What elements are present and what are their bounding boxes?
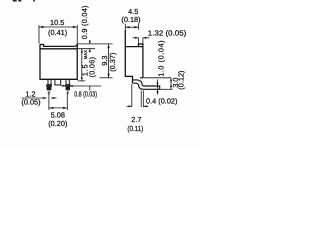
svg-text:(0.18): (0.18)	[121, 15, 140, 24]
dimension 5.08 (0.20) lead pitch	[49, 92, 67, 110]
dimension 3.0 (0.12)	[160, 78, 173, 90]
dimension 1.5 MAX (0.06)	[77, 49, 85, 81]
svg-text:2.7: 2.7	[131, 115, 141, 124]
lead 3 (right)	[66, 79, 70, 86]
dimension 4.5 (0.18) body depth	[125, 24, 138, 30]
wire top cut-off text remnants	[13, 0, 35, 2]
svg-text:(0.06): (0.06)	[88, 57, 97, 78]
svg-text:0.9 (0.04): 0.9 (0.04)	[80, 5, 89, 39]
package body outline	[40, 44, 77, 80]
svg-text:0.4 (0.02): 0.4 (0.02)	[146, 96, 177, 105]
svg-text:0.8 (0.03): 0.8 (0.03)	[74, 89, 97, 98]
lead 2 (center stub)	[55, 79, 61, 85]
dimension 0.8 (0.03) lead width	[61, 86, 101, 91]
dimension 1.2 (0.05) foot width	[22, 97, 57, 99]
dimension 1.32 (0.05) tab thickness	[133, 38, 150, 45]
svg-text:(0.41): (0.41)	[48, 28, 67, 37]
svg-text:(0.05): (0.05)	[21, 97, 40, 106]
tab top profile: left plateau, step, trough, right curl	[40, 44, 77, 47]
svg-text:1.32 (0.05): 1.32 (0.05)	[148, 29, 187, 38]
body outline	[125, 30, 143, 83]
svg-text:1.0 (0.04): 1.0 (0.04)	[156, 40, 165, 77]
dimension 0.9 (0.04) tab thickness: long shared extension line	[77, 40, 112, 52]
svg-text:(0.37): (0.37)	[108, 53, 117, 72]
dimension 9.3 (0.37) height	[100, 44, 113, 78]
svg-text:(0.12): (0.12)	[177, 71, 186, 90]
dimension 10.5 (0.41) top width	[39, 25, 77, 44]
dimension 1.0 (0.04) lead thickness	[143, 78, 171, 95]
svg-text:(0.11): (0.11)	[127, 124, 143, 133]
lead 1 (left)	[47, 79, 52, 86]
svg-text:(0.20): (0.20)	[48, 119, 67, 128]
lead (side) S-bend	[133, 80, 160, 89]
svg-text:10.5: 10.5	[50, 18, 64, 27]
dimension 2.7 (0.11)	[127, 84, 149, 107]
